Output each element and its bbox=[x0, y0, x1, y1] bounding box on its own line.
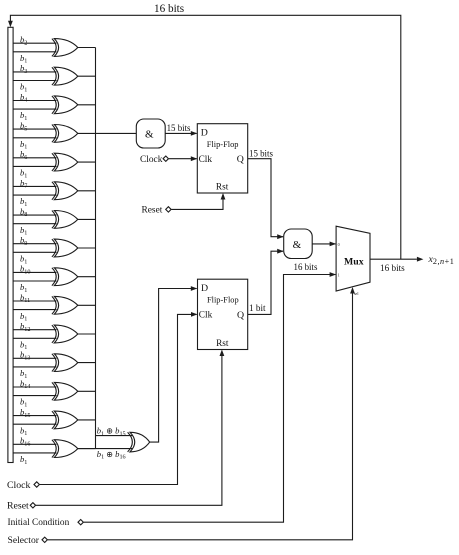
wire input b1 to XOR10 bbox=[13, 309, 56, 311]
wire input b6 to XOR5 bbox=[13, 157, 56, 159]
wire output XOR10 to trunk bbox=[78, 304, 96, 306]
svg-text:Selector: Selector bbox=[8, 535, 40, 546]
wire input b7 to XOR6 bbox=[13, 185, 56, 187]
wire 15-bit trunk collecting XOR outputs bbox=[95, 48, 97, 449]
wire FF1 Q to U2, 15 bits bbox=[248, 159, 283, 237]
wire input b1 to XOR7 bbox=[13, 223, 56, 225]
wire input b11 to XOR10 bbox=[13, 300, 56, 302]
svg-text:Initial Condition: Initial Condition bbox=[8, 518, 70, 528]
wire input b1 to XOR2 bbox=[13, 80, 56, 82]
wire U2 to Mux input 0, 16 bits bbox=[312, 243, 335, 245]
wire input b1 to XOR6 bbox=[13, 194, 56, 196]
svg-text:0: 0 bbox=[338, 242, 340, 247]
wire trunk to final XOR top input bbox=[96, 435, 133, 437]
wire input b1 to XOR15 bbox=[13, 452, 56, 454]
wire output XOR9 to trunk bbox=[78, 276, 96, 278]
wire input b16 to XOR15 bbox=[13, 443, 56, 445]
wire output XOR3 to trunk bbox=[78, 104, 96, 106]
wire input b1 to XOR8 bbox=[13, 251, 56, 253]
wire output XOR8 to trunk bbox=[78, 247, 96, 249]
xor gate X15 (b16 xor b1) bbox=[54, 440, 78, 458]
wire Reset to FF1 Rst bbox=[171, 200, 223, 210]
wire input b1 to XOR3 bbox=[13, 108, 56, 110]
svg-text:16 bits: 16 bits bbox=[380, 263, 405, 273]
svg-text:15 bits: 15 bits bbox=[167, 123, 191, 133]
svg-text:Rst: Rst bbox=[216, 182, 229, 192]
xor gate X16 ((b1^b15) xor (b1^b16)) bbox=[130, 432, 150, 452]
wire input b1 to XOR11 bbox=[13, 337, 56, 339]
svg-text:15 bits: 15 bits bbox=[249, 148, 273, 158]
svg-text:Flip-Flop: Flip-Flop bbox=[207, 295, 239, 304]
wire trunk to concat block U1 bbox=[96, 132, 137, 134]
svg-text:&: & bbox=[293, 239, 302, 251]
xor gate X3 (b4 xor b1) bbox=[54, 96, 78, 114]
concat block U2 (&) bbox=[284, 229, 313, 259]
wire output XOR4 to trunk bbox=[78, 132, 96, 134]
svg-text:Clock: Clock bbox=[140, 155, 163, 165]
wire output XOR2 to trunk bbox=[78, 75, 96, 77]
xor gate X4 (b5 xor b1) bbox=[54, 125, 78, 143]
flip-flop FF1 (15-bit) bbox=[197, 124, 247, 193]
wire input b1 to XOR14 bbox=[13, 423, 56, 425]
svg-text:Flip-Flop: Flip-Flop bbox=[207, 140, 239, 149]
wire input b8 to XOR7 bbox=[13, 214, 56, 216]
concat block U1 (&) bbox=[136, 119, 165, 148]
wire output XOR12 to trunk bbox=[78, 362, 96, 364]
svg-text:Q: Q bbox=[237, 154, 244, 165]
svg-text:Clk: Clk bbox=[199, 311, 213, 321]
svg-text:D: D bbox=[201, 283, 208, 294]
wire input b14 to XOR13 bbox=[13, 386, 56, 388]
svg-text:Reset: Reset bbox=[142, 206, 163, 216]
wire Reset to FF2 Rst bbox=[36, 356, 222, 505]
xor gate X14 (b15 xor b1) bbox=[54, 411, 78, 429]
wire input b3 to XOR2 bbox=[13, 71, 56, 73]
svg-text:1: 1 bbox=[338, 272, 340, 277]
wire input b10 to XOR9 bbox=[13, 271, 56, 273]
xor gate X8 (b9 xor b1) bbox=[54, 239, 78, 257]
xor gate X7 (b8 xor b1) bbox=[54, 211, 78, 229]
wire Clock to FF1 Clk bbox=[169, 158, 197, 160]
wire output XOR1 to trunk bbox=[78, 47, 96, 49]
xor gate X5 (b6 xor b1) bbox=[54, 153, 78, 171]
xor gate X1 (b2 xor b1) bbox=[54, 39, 78, 57]
wire Initial Condition to Mux input 1, 16 bits bbox=[84, 275, 336, 523]
xor gate X6 (b7 xor b1) bbox=[54, 182, 78, 200]
svg-text:1 bit: 1 bit bbox=[249, 303, 266, 313]
wire input b1 to XOR1 bbox=[13, 51, 56, 53]
wire input b1 to XOR9 bbox=[13, 280, 56, 282]
svg-text:16 bits: 16 bits bbox=[294, 262, 318, 272]
svg-text:Reset: Reset bbox=[7, 501, 29, 512]
wire output XOR6 to trunk bbox=[78, 190, 96, 192]
wire input b2 to XOR1 bbox=[13, 42, 56, 44]
xor gate X9 (b10 xor b1) bbox=[54, 268, 78, 286]
xor gate X10 (b11 xor b1) bbox=[54, 296, 78, 314]
input bus bar (16-bit register column) bbox=[8, 27, 13, 462]
wire input b1 to XOR4 bbox=[13, 137, 56, 139]
wire output XOR5 to trunk bbox=[78, 161, 96, 163]
svg-text:&: & bbox=[145, 128, 154, 140]
wire output XOR15 to trunk bbox=[78, 448, 96, 450]
wire input b9 to XOR8 bbox=[13, 243, 56, 245]
wire input b15 to XOR14 bbox=[13, 415, 56, 417]
xor gate X2 (b3 xor b1) bbox=[54, 67, 78, 85]
wire input b12 to XOR11 bbox=[13, 329, 56, 331]
xor gate X13 (b14 xor b1) bbox=[54, 382, 78, 400]
wire input b5 to XOR4 bbox=[13, 128, 56, 130]
svg-text:Rst: Rst bbox=[216, 339, 229, 349]
wire output XOR13 to trunk bbox=[78, 390, 96, 392]
wire input b1 to XOR13 bbox=[13, 395, 56, 397]
wire input b13 to XOR12 bbox=[13, 357, 56, 359]
wire feedback 16-bit from mux output to input bus bbox=[10, 15, 400, 259]
wire XOR15 output to final XOR bottom input bbox=[78, 448, 132, 450]
mux U3 bbox=[336, 226, 370, 291]
wire Selector to Mux sel bbox=[48, 294, 353, 540]
flip-flop FF2 (1-bit) bbox=[198, 279, 248, 349]
wire input b1 to XOR12 bbox=[13, 366, 56, 368]
wire U1 to FF1 D, 15 bits bbox=[165, 132, 196, 134]
wire output XOR11 to trunk bbox=[78, 333, 96, 335]
wire final XOR output to FF2 D, 1 bit bbox=[150, 289, 197, 443]
svg-text:Q: Q bbox=[237, 310, 244, 321]
wire input b4 to XOR3 bbox=[13, 100, 56, 102]
wire input b1 to XOR5 bbox=[13, 165, 56, 167]
xor gate X12 (b13 xor b1) bbox=[54, 354, 78, 372]
xor gate X11 (b12 xor b1) bbox=[54, 325, 78, 343]
wire Clock to FF2 Clk bbox=[40, 314, 197, 484]
wire output XOR7 to trunk bbox=[78, 218, 96, 220]
wire FF2 Q to U2, 1 bit bbox=[248, 251, 283, 314]
wire output XOR14 to trunk bbox=[78, 419, 96, 421]
wire Mux output x2,n+1 bbox=[370, 258, 417, 260]
svg-text:Clk: Clk bbox=[199, 155, 213, 165]
svg-text:Clock: Clock bbox=[7, 480, 31, 491]
svg-text:Mux: Mux bbox=[344, 257, 364, 268]
svg-text:16 bits: 16 bits bbox=[154, 3, 184, 15]
svg-text:D: D bbox=[201, 127, 208, 138]
